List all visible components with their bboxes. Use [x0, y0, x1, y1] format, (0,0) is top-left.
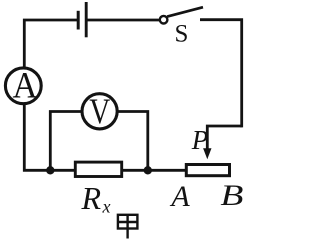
label 甲 (vertical stroke with tail) — [126, 214, 128, 239]
ammeter U1 circle — [5, 68, 41, 104]
battery short plate — [77, 11, 80, 30]
label 甲 (middle horizontal stroke) — [118, 221, 137, 223]
svg-text:A: A — [169, 180, 190, 213]
svg-text:R: R — [81, 180, 102, 216]
wire: right corner to slider — [207, 126, 241, 150]
switch S pivot circle — [160, 16, 168, 24]
switch S blade — [167, 7, 203, 16]
svg-text:B: B — [220, 179, 243, 212]
svg-text:x: x — [102, 197, 111, 217]
battery long plate — [85, 2, 88, 37]
svg-text:V: V — [89, 91, 110, 131]
node: right junction dot — [144, 166, 152, 174]
voltmeter U2 circle — [82, 94, 117, 129]
voltmeter branch wires — [50, 112, 148, 171]
wire: left loop (top-left horizontal, left vertical, bottom-left horizontal) — [24, 20, 186, 170]
wire: battery to switch — [87, 19, 160, 22]
slider arrowhead P — [203, 148, 211, 159]
node: left junction dot — [46, 166, 54, 174]
svg-text:S: S — [175, 21, 189, 48]
svg-text:P: P — [191, 125, 209, 155]
resistor Rx box — [75, 162, 121, 176]
wire: switch to top-right corner and right vertical — [200, 20, 242, 128]
label 甲 (drawn glyph: box) — [118, 215, 137, 229]
rheostat AB box — [186, 165, 229, 176]
svg-text:A: A — [13, 66, 38, 107]
